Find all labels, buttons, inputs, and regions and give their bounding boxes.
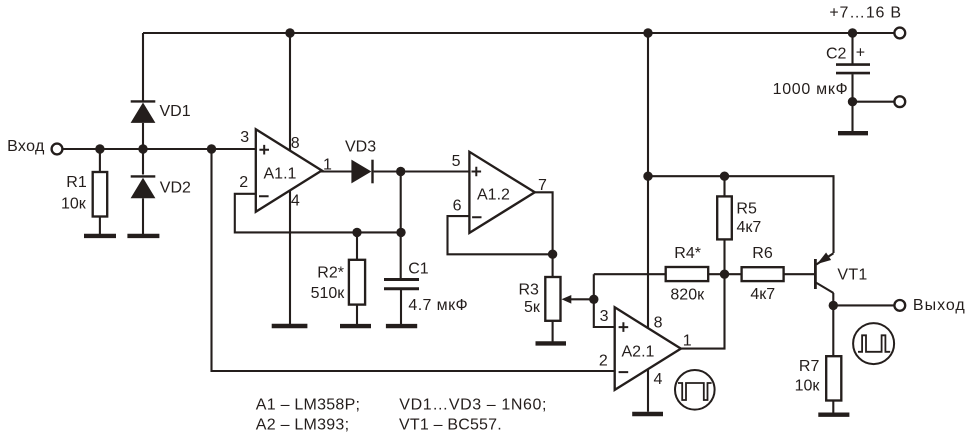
svg-text:+: + [856, 45, 865, 62]
svg-text:VD1: VD1 [160, 103, 191, 120]
svg-text:1: 1 [683, 333, 692, 350]
svg-text:A1 – LM358P;: A1 – LM358P; [256, 397, 360, 414]
svg-text:A1.2: A1.2 [477, 187, 510, 204]
svg-text:A2.1: A2.1 [622, 343, 655, 360]
svg-text:+7…16 В: +7…16 В [829, 5, 901, 22]
svg-text:1000 мкФ: 1000 мкФ [773, 81, 849, 98]
svg-text:R1: R1 [66, 174, 87, 191]
svg-text:R3: R3 [519, 281, 540, 298]
svg-text:R4*: R4* [674, 245, 701, 262]
svg-text:Вход: Вход [7, 138, 45, 155]
svg-text:5к: 5к [524, 299, 541, 316]
svg-text:C2: C2 [826, 46, 847, 63]
svg-text:VD1…VD3 – 1N60;: VD1…VD3 – 1N60; [399, 397, 547, 414]
svg-text:4.7 мкФ: 4.7 мкФ [408, 297, 468, 314]
svg-text:VD2: VD2 [160, 179, 191, 196]
svg-text:R6: R6 [752, 245, 773, 262]
svg-text:4: 4 [291, 193, 300, 210]
svg-text:R5: R5 [736, 201, 757, 218]
svg-text:VT1 – BC557.: VT1 – BC557. [399, 417, 502, 434]
svg-text:4к7: 4к7 [750, 286, 775, 303]
svg-text:10к: 10к [795, 377, 821, 394]
svg-text:820к: 820к [670, 286, 705, 303]
svg-text:510к: 510к [311, 285, 346, 302]
svg-text:3: 3 [600, 308, 609, 325]
svg-text:1: 1 [323, 157, 332, 174]
svg-text:6: 6 [453, 198, 462, 215]
svg-text:10к: 10к [61, 196, 87, 213]
svg-text:4: 4 [654, 371, 663, 388]
svg-text:VD3: VD3 [345, 138, 376, 155]
svg-text:R2*: R2* [317, 265, 344, 282]
svg-text:8: 8 [291, 135, 300, 152]
svg-text:2: 2 [239, 174, 248, 191]
svg-text:8: 8 [654, 315, 663, 332]
svg-text:Выход: Выход [913, 297, 966, 314]
svg-text:2: 2 [599, 352, 608, 369]
svg-text:C1: C1 [408, 260, 429, 277]
svg-text:VT1: VT1 [837, 267, 867, 284]
svg-text:4к7: 4к7 [737, 219, 762, 236]
svg-text:7: 7 [538, 177, 547, 194]
svg-text:5: 5 [452, 153, 461, 170]
svg-text:R7: R7 [799, 358, 820, 375]
svg-text:A1.1: A1.1 [264, 166, 297, 183]
svg-text:A2 – LM393;: A2 – LM393; [256, 417, 349, 434]
svg-text:3: 3 [240, 129, 249, 146]
